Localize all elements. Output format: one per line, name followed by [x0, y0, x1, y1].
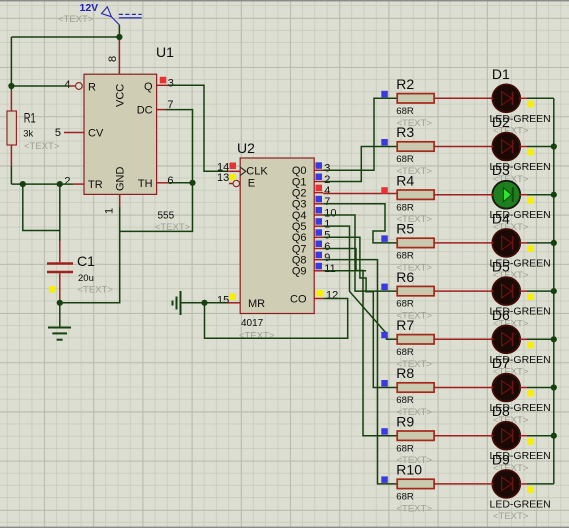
wire Q to CLK [168, 85, 228, 171]
U1 pin 8 VCC [107, 37, 119, 74]
wire D7 to rail [527, 387, 554, 389]
svg-text:CO: CO [290, 293, 307, 305]
svg-text:68R: 68R [396, 443, 414, 454]
svg-text:GND: GND [115, 167, 127, 192]
pin state square D9 cathode [527, 486, 534, 493]
U2 pin 6 Q7 [292, 241, 331, 256]
wire Q9 stub [323, 270, 366, 272]
svg-text:R5: R5 [396, 221, 414, 237]
svg-text:7: 7 [324, 196, 330, 208]
svg-text:Q6: Q6 [292, 232, 307, 244]
pin state square Q9 [316, 263, 323, 270]
node rail junction D6 [551, 336, 557, 342]
resistor R5 [396, 221, 492, 274]
svg-text:<TEXT>: <TEXT> [24, 141, 60, 152]
LED D1 [490, 66, 551, 137]
svg-text:20u: 20u [78, 273, 94, 284]
wire TH to GND rail [120, 183, 193, 232]
U1 pin 6 TH [157, 175, 174, 187]
wire D5 to rail [527, 290, 554, 292]
U2 pin 9 Q8 [292, 252, 331, 267]
resistor R8 [396, 365, 492, 418]
svg-text:8: 8 [107, 56, 119, 62]
wire DC down to TH row [166, 110, 193, 183]
svg-text:R7: R7 [396, 317, 414, 333]
U2 pin 10 Q4 [292, 207, 337, 222]
svg-text:13: 13 [217, 172, 229, 184]
resistor R3 [396, 124, 492, 177]
node TR junction A [20, 181, 26, 187]
svg-text:68R: 68R [396, 347, 414, 358]
wire pin4 to left rail [11, 85, 70, 87]
svg-text:D1: D1 [492, 66, 510, 82]
svg-text:D2: D2 [492, 114, 510, 130]
pin state square D5 cathode [527, 294, 534, 301]
resistor R4 [396, 172, 492, 225]
svg-text:1: 1 [104, 208, 116, 214]
pin state square Q8 [316, 252, 323, 259]
node rail junction D8 [551, 433, 557, 439]
svg-text:<TEXT>: <TEXT> [78, 285, 114, 296]
svg-text:<TEXT>: <TEXT> [493, 511, 529, 522]
LED D8 [490, 403, 551, 474]
pin state square Q6 [316, 229, 323, 236]
pin state square R10 input [381, 476, 388, 483]
U1 pin 2 TR [64, 176, 84, 188]
wire Q4 to R6 [323, 215, 396, 291]
svg-text:<TEXT>: <TEXT> [58, 14, 94, 25]
svg-text:6: 6 [167, 175, 173, 187]
wire Q5 to R7 diagonal [323, 226, 396, 339]
resistor R10 [396, 462, 492, 515]
pin state square MR [230, 294, 237, 301]
svg-text:R8: R8 [396, 365, 414, 381]
svg-text:2: 2 [64, 176, 70, 188]
wire D2 to rail [527, 146, 554, 148]
pin state square Q4 [316, 207, 323, 214]
wire TR to C1 [59, 184, 61, 241]
wire TR row [11, 183, 73, 185]
U2 pin 15 MR [217, 294, 240, 306]
svg-text:68R: 68R [396, 106, 414, 117]
svg-text:TR: TR [88, 179, 103, 191]
svg-text:DC: DC [137, 105, 153, 117]
svg-text:68R: 68R [396, 154, 414, 165]
ground at MR (rotated) [173, 291, 181, 315]
svg-text:6: 6 [324, 241, 330, 253]
svg-text:D4: D4 [492, 210, 510, 226]
svg-text:Q0: Q0 [292, 165, 307, 177]
svg-text:CLK: CLK [246, 165, 268, 177]
wire Q8 to R10 [323, 260, 396, 484]
node rail junction D3 [551, 192, 557, 198]
pin state square D1 cathode [527, 101, 534, 108]
svg-text:R2: R2 [396, 76, 414, 92]
node MR junction [201, 300, 207, 306]
svg-text:<TEXT>: <TEXT> [397, 503, 433, 514]
svg-text:C1: C1 [77, 253, 95, 269]
wire D3 to rail [527, 194, 554, 196]
svg-text:12: 12 [326, 289, 338, 301]
LED D9 [490, 451, 551, 522]
svg-text:4017: 4017 [241, 318, 264, 329]
svg-text:68R: 68R [396, 395, 414, 406]
power terminal 12V [80, 2, 142, 25]
U1 pin 7 DC [157, 99, 174, 111]
svg-text:VCC: VCC [115, 84, 127, 107]
svg-text:E: E [248, 177, 255, 189]
node rail junction D5 [551, 288, 557, 294]
LED D2 [490, 114, 551, 185]
svg-text:11: 11 [324, 263, 335, 275]
wire VCC rail [11, 25, 119, 90]
pin state square CLK [230, 163, 237, 170]
pin state square Q1 [316, 174, 323, 181]
pin state square E [230, 174, 236, 180]
node VCC junction [116, 34, 122, 40]
LED D6 [490, 307, 551, 378]
pin state square R2 input [381, 91, 388, 98]
svg-text:D7: D7 [492, 355, 510, 371]
wire GND down [60, 207, 120, 303]
svg-text:D9: D9 [492, 451, 510, 467]
U2 pin 14 CLK [217, 161, 240, 173]
wire D9 to rail [527, 483, 554, 485]
svg-text:R: R [88, 82, 96, 94]
wire CO to MR net [205, 299, 348, 339]
svg-text:D8: D8 [492, 403, 510, 419]
svg-text:R3: R3 [396, 124, 414, 140]
svg-text:R6: R6 [396, 269, 414, 285]
wire TR loop [23, 184, 60, 230]
IC U2 4017 body [237, 140, 314, 342]
svg-text:555: 555 [158, 211, 175, 222]
pin state square R7 input [381, 332, 388, 339]
resistor R9 [396, 413, 492, 466]
U2 pin 4 Q2 [292, 185, 331, 200]
LED D4 [490, 210, 551, 281]
svg-text:TH: TH [138, 178, 153, 190]
U2 pin 3 Q0 [292, 163, 331, 178]
svg-text:Q: Q [144, 81, 153, 93]
wire LED cathode rail [553, 98, 555, 484]
svg-text:3: 3 [324, 163, 330, 175]
svg-text:Q3: Q3 [292, 199, 307, 211]
resistor R7 [396, 317, 492, 370]
pin state square R4 input [381, 187, 388, 194]
svg-text:Q2: Q2 [292, 187, 307, 199]
svg-text:MR: MR [248, 298, 265, 310]
U1 pin 3 Q [157, 78, 174, 90]
node R1 top junction [8, 83, 14, 89]
U2 pin 5 Q6 [292, 230, 331, 245]
wire D1 to rail [527, 97, 554, 99]
svg-text:15: 15 [217, 294, 229, 306]
pin state square Q [160, 77, 167, 84]
wire Q2 to R4 [323, 193, 396, 195]
svg-text:4: 4 [324, 185, 330, 197]
svg-text:D3: D3 [492, 162, 510, 178]
svg-text:10: 10 [324, 207, 336, 219]
pin state square D3 cathode [527, 197, 534, 204]
pin state square D6 cathode [527, 342, 534, 349]
svg-text:3: 3 [168, 78, 174, 90]
svg-text:R10: R10 [396, 462, 422, 478]
svg-text:R4: R4 [396, 172, 414, 188]
svg-text:D6: D6 [492, 307, 510, 323]
wire D6 to rail [527, 338, 554, 340]
svg-text:5: 5 [324, 230, 330, 242]
pin state square C1 [49, 286, 56, 293]
U1 pin 5 CV [55, 127, 84, 139]
wire R1 bottom to TR row [10, 166, 12, 184]
svg-text:R9: R9 [396, 413, 414, 429]
pin state square R3 input [381, 139, 388, 146]
wire TH stub [168, 182, 193, 184]
pin state square R6 input [381, 284, 388, 291]
pin state square Q0 [316, 162, 323, 169]
U2 pin 2 Q1 [292, 174, 331, 189]
pin state square D8 cathode [527, 438, 534, 445]
wire D8 to rail [527, 435, 554, 437]
wire Q0 to R2 [323, 98, 396, 170]
node TR junction B [57, 181, 63, 187]
wire Q1 to R3 [323, 147, 396, 182]
svg-text:U1: U1 [156, 44, 174, 60]
wire Q7 to R9 [323, 249, 396, 436]
U2 pin 11 Q9 [292, 263, 336, 278]
pin state square Q2 [316, 185, 323, 192]
svg-text:<TEXT>: <TEXT> [239, 331, 275, 342]
node rail junction D4 [551, 240, 557, 246]
svg-text:68R: 68R [396, 492, 414, 503]
svg-text:Q4: Q4 [292, 210, 307, 222]
U1 pin 4 R with bubble [64, 79, 82, 91]
wire MR to ground [181, 302, 229, 304]
svg-text:Q7: Q7 [292, 243, 307, 255]
pin state square R8 input [381, 380, 388, 387]
LED D3 (lit) [490, 162, 551, 233]
svg-text:U2: U2 [237, 140, 255, 156]
pin state square Q7 [316, 241, 323, 248]
U2 pin 1 Q5 [292, 219, 331, 234]
svg-text:Q9: Q9 [292, 266, 307, 278]
svg-text:CV: CV [88, 128, 104, 140]
pin state square Q3 [316, 196, 323, 203]
U2 pin 7 Q3 [292, 196, 331, 211]
resistor R1 [7, 90, 60, 166]
svg-text:D5: D5 [492, 259, 510, 275]
node C1 bottom junction [57, 300, 63, 306]
pin state square D4 cathode [527, 245, 534, 252]
wire Q3 to R5 [323, 204, 396, 243]
pin state square Q5 [316, 218, 323, 225]
resistor R2 [396, 76, 492, 129]
svg-text:4: 4 [64, 79, 70, 91]
pin state square R5 input [381, 235, 388, 242]
svg-text:68R: 68R [396, 299, 414, 310]
ground under C1 [48, 303, 71, 340]
svg-text:LED-GREEN: LED-GREEN [490, 498, 551, 510]
wire D4 to rail [527, 242, 554, 244]
node TH junction [189, 180, 195, 186]
pin state square D2 cathode [527, 149, 534, 156]
LED D5 [490, 259, 551, 330]
svg-text:68R: 68R [396, 251, 414, 262]
pin state square CO [317, 290, 324, 297]
pin state square R9 input [381, 428, 388, 435]
node rail junction D7 [551, 384, 557, 390]
svg-text:68R: 68R [396, 202, 414, 213]
svg-text:R1: R1 [24, 109, 36, 125]
pin state square D7 cathode [527, 390, 534, 397]
node rail junction D2 [551, 143, 557, 149]
svg-text:12V: 12V [80, 2, 99, 14]
op-amp U1 555 body [84, 44, 191, 233]
capacitor C1 [47, 241, 113, 303]
U1 pin 1 GND [104, 194, 120, 214]
svg-text:5: 5 [55, 127, 61, 139]
LED D7 [490, 355, 551, 426]
U2 pin 13 E with bubble [217, 172, 239, 187]
resistor R6 [396, 269, 492, 322]
U2 pin 12 CO [314, 289, 338, 301]
wire Q6 to R8 [323, 237, 396, 387]
svg-text:3k: 3k [23, 128, 33, 139]
